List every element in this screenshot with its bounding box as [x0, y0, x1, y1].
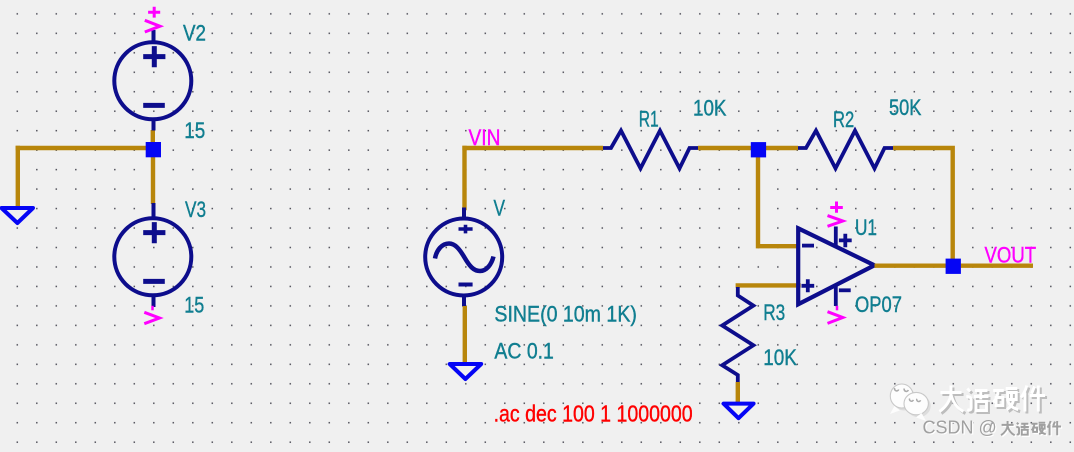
wire: R1 to R2 through node [698, 146, 798, 150]
node B (R1/R2/feedback junction) [751, 142, 766, 157]
voltage source V3 [114, 203, 191, 307]
svg-text:U1: U1 [855, 215, 877, 240]
svg-text:OP07: OP07 [855, 292, 902, 317]
resistor R3 [722, 287, 753, 382]
sine source V [425, 208, 502, 307]
wire: sine bottom to ground [463, 306, 467, 364]
watermark CSDN line [923, 418, 1063, 439]
wire: feedback from node down and right to inv input [758, 148, 799, 246]
resistor R1 [603, 131, 698, 169]
svg-text:15: 15 [184, 292, 204, 317]
svg-text:VIN: VIN [469, 125, 501, 150]
wire: VIN vertical [462, 148, 466, 208]
wire: V2 bottom to node [151, 130, 155, 143]
svg-text:10K: 10K [693, 96, 727, 121]
flag - on U1 V- [828, 306, 843, 324]
wire: R2 right then down to output [893, 148, 953, 266]
svg-text:AC 0.1: AC 0.1 [494, 339, 554, 364]
svg-text:.ac dec 100 1 1000000: .ac dec 100 1 1000000 [494, 400, 693, 426]
wire: R3 top to non-inv input [738, 283, 799, 287]
svg-text:15: 15 [184, 118, 205, 143]
watermark icon (chat bubbles) [890, 384, 931, 421]
voltage source V2 [114, 30, 191, 131]
svg-text:V: V [494, 195, 506, 220]
wire: R3 bottom to ground [736, 382, 740, 403]
wire: left vertical down to ground [16, 148, 20, 206]
watermark text 大话硬件 [939, 386, 1047, 414]
flag + on U1 V+ [828, 202, 843, 227]
ground (under R3) [724, 404, 754, 419]
ground (under V) [450, 364, 482, 379]
svg-text:V2: V2 [183, 20, 206, 45]
flag - on V3 bottom [144, 306, 159, 324]
svg-text:R2: R2 [833, 107, 854, 132]
svg-text:R1: R1 [639, 106, 659, 131]
resistor R2 [798, 131, 893, 169]
op-amp U1 [798, 227, 874, 307]
svg-text:10K: 10K [763, 345, 797, 370]
node A (V2/V3 junction) [146, 142, 161, 157]
svg-text:50K: 50K [889, 95, 922, 120]
node VOUT [946, 259, 961, 274]
wire: op-amp output to VOUT and right [875, 264, 1034, 268]
flag + on V2 top [145, 7, 160, 32]
svg-text:V3: V3 [185, 197, 206, 222]
wire: node down to V3 top [151, 154, 155, 204]
svg-text:CSDN @: CSDN @ [923, 418, 997, 438]
wire: VIN horizontal to R1 [462, 146, 603, 150]
wire: node V2 to left edge [18, 146, 153, 150]
ground (left) [2, 208, 34, 223]
svg-text:R3: R3 [763, 300, 785, 325]
svg-text:SINE(0 10m 1K): SINE(0 10m 1K) [494, 302, 637, 327]
svg-text:VOUT: VOUT [985, 243, 1037, 268]
